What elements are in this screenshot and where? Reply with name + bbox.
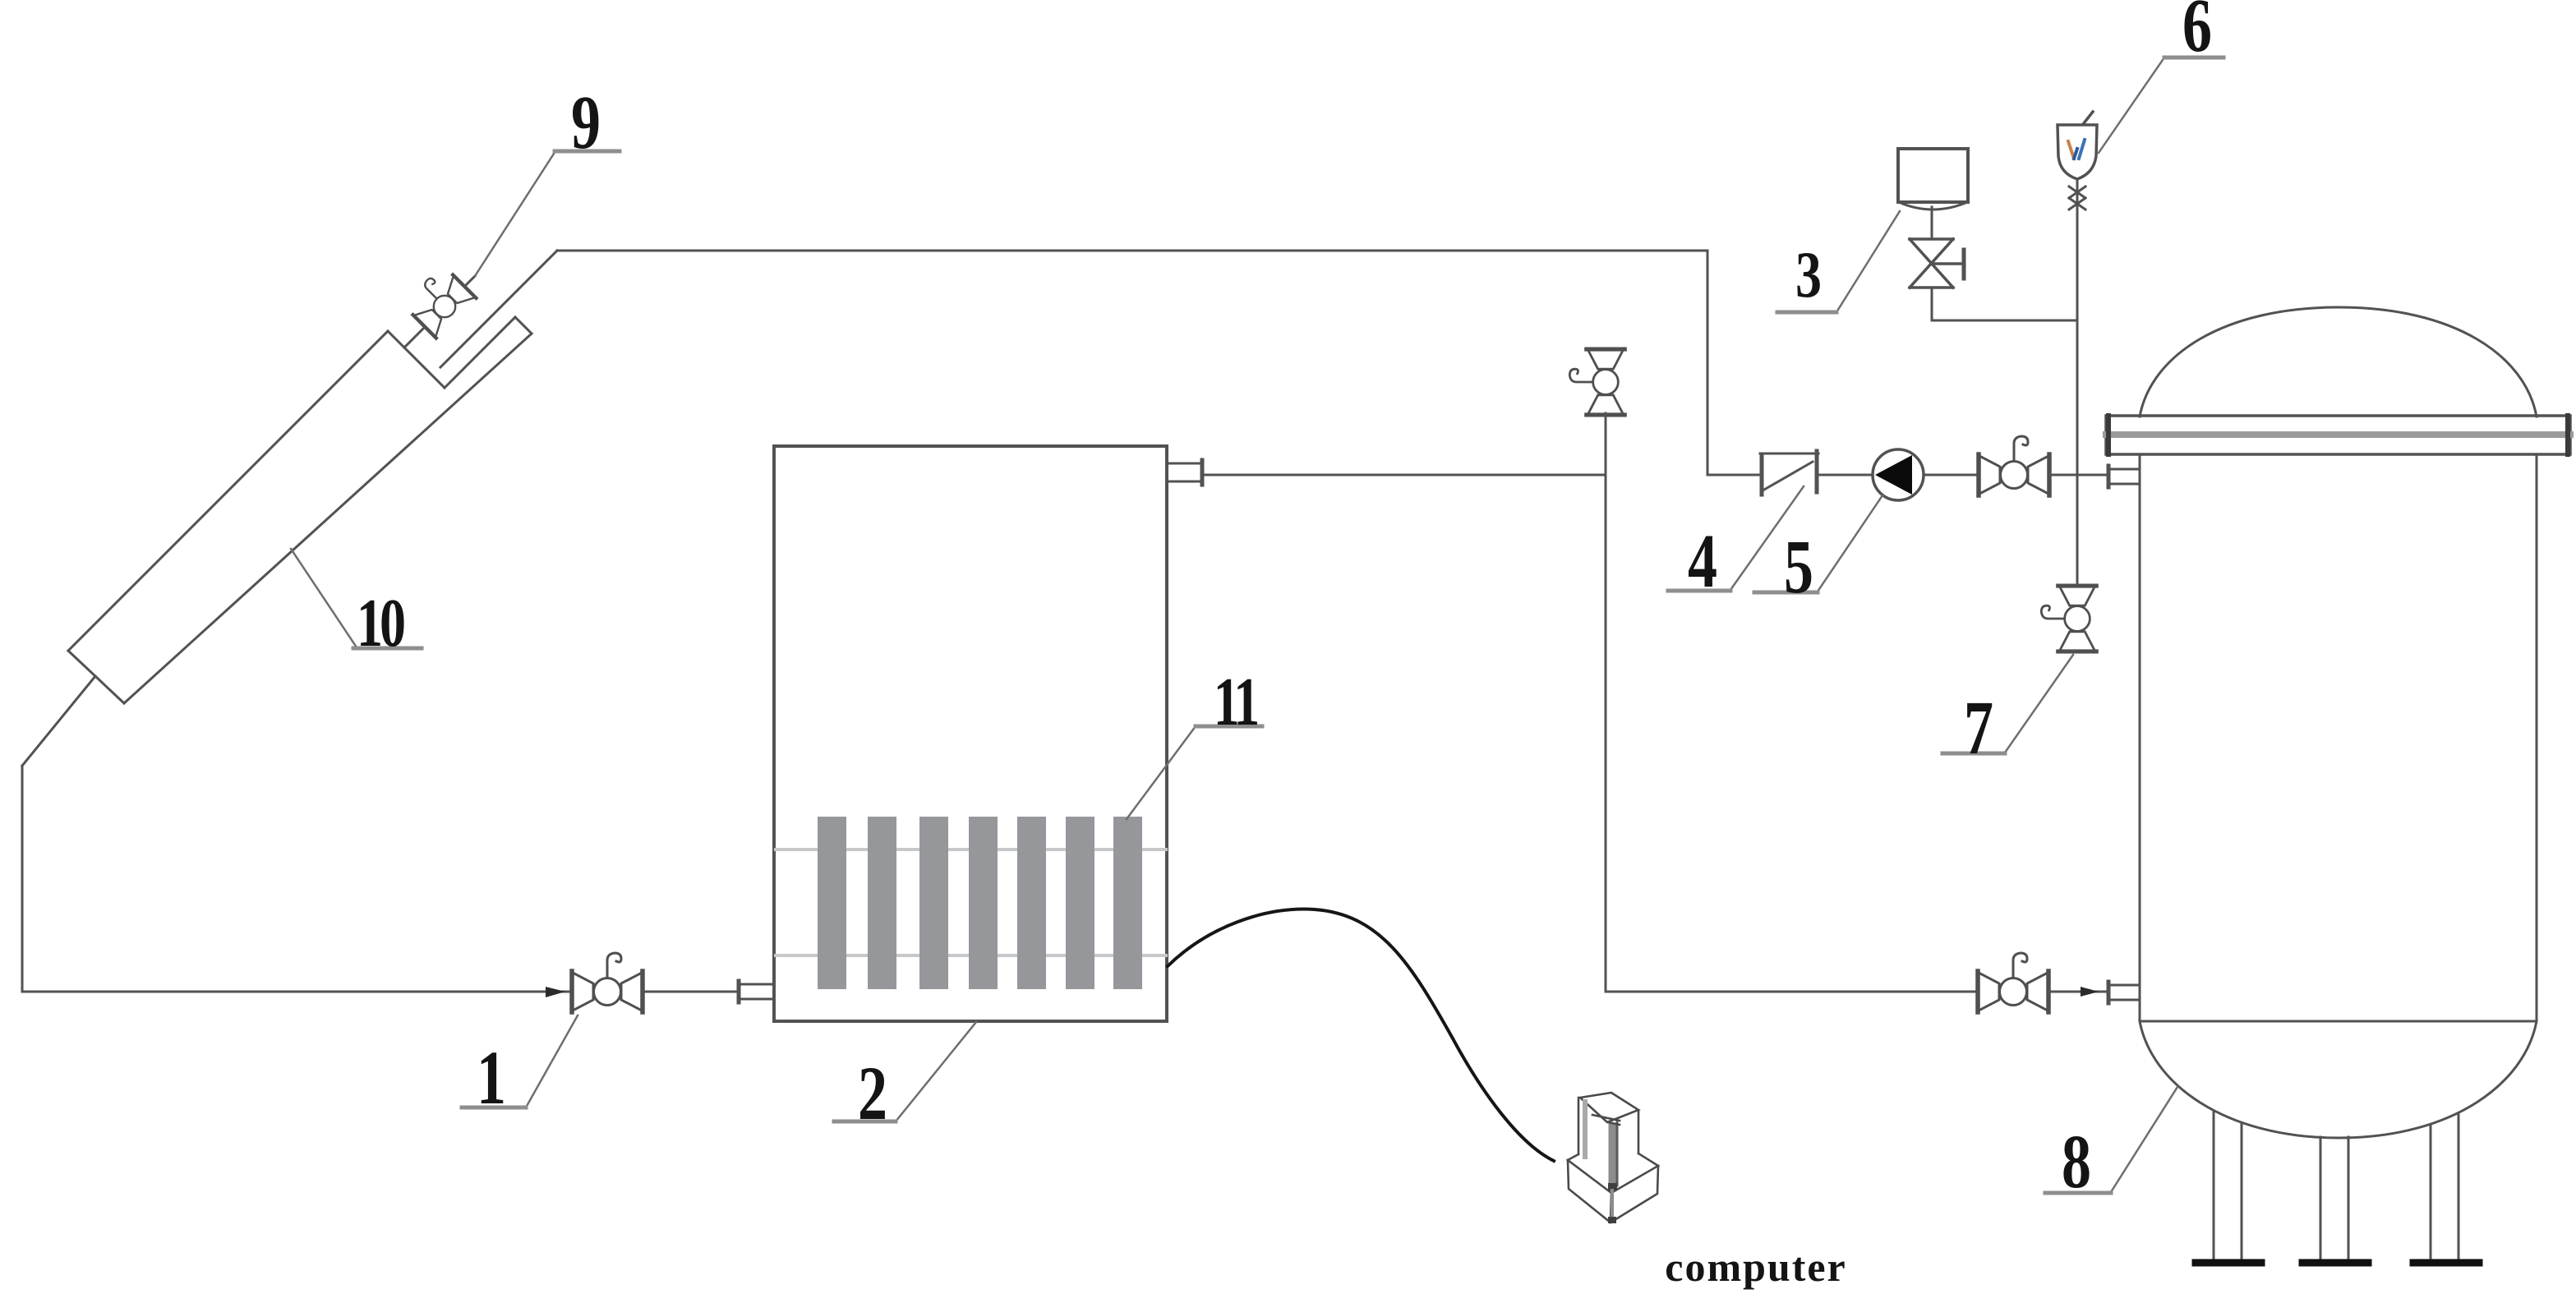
wire: stub above valve 9 [464, 276, 475, 287]
wire: neck from collector to valve 9 [404, 327, 425, 348]
wire: globe valve down then right [1931, 288, 1933, 320]
wire: top pipe [557, 250, 1707, 252]
relief globe valve below cup 3 [1910, 239, 1964, 288]
label underlines [353, 58, 2223, 1193]
wire: valve to tank 8 top nozzle [2049, 474, 2108, 477]
body walls [2139, 454, 2141, 1021]
light support lines in tank 2 [776, 848, 1166, 851]
tank 2 top-right nozzle [1168, 460, 1202, 485]
pump 5 [1873, 449, 1924, 500]
legs [2214, 1112, 2458, 1259]
wire: downcomer [1707, 251, 1709, 475]
cable from tank 2 to computer [1168, 909, 1554, 1161]
dome [2140, 307, 2537, 417]
vent device 6 [2058, 112, 2097, 179]
svg-text:11: 11 [1214, 665, 1258, 740]
wire: vertical line from device 6 down to valve 7 [2076, 179, 2079, 584]
wire: riser vertical [1605, 413, 1607, 992]
tank 2 [774, 446, 1167, 1021]
small double cross under device 6 [2069, 186, 2085, 209]
svg-text:9: 9 [571, 81, 601, 165]
weld line [2140, 1020, 2537, 1023]
flange [2106, 416, 2570, 454]
tank 8 [2106, 307, 2570, 1263]
svg-text:7: 7 [1964, 686, 1993, 771]
wire: check valve to pump [1819, 474, 1873, 477]
monitor left edge [1578, 1098, 1580, 1154]
collector 10 body [68, 317, 532, 703]
svg-text:6: 6 [2182, 0, 2212, 68]
svg-text:computer: computer [1665, 1244, 1847, 1290]
svg-text:5: 5 [1784, 525, 1813, 610]
heat pipes 11 (gray bars inside tank 2) [818, 817, 1142, 989]
wire: tank 2 to riser junction [1202, 474, 1606, 477]
wire: pump to valve [1924, 474, 1979, 477]
monitor right edge [1638, 1111, 1640, 1153]
svg-text:4: 4 [1688, 519, 1717, 604]
center pedestal bar [1609, 1127, 1616, 1186]
tank 8 top nozzle [2108, 466, 2140, 487]
wire: downcomer to check valve [1707, 474, 1761, 477]
wire: valve 1 to tank 2 nozzle [643, 991, 739, 993]
svg-text:10: 10 [357, 586, 404, 661]
monitor top face [1580, 1093, 1638, 1122]
valve before tank 8 top [1979, 436, 2049, 495]
cup 3 (expansion vessel) [1898, 149, 1968, 209]
svg-text:3: 3 [1795, 237, 1822, 311]
svg-text:1: 1 [477, 1036, 506, 1121]
wire: cup stem [1931, 207, 1933, 239]
leader lines [291, 58, 2177, 1192]
base sides [1568, 1160, 1658, 1222]
bottom dome [2140, 1021, 2537, 1138]
valve 1 [572, 953, 643, 1012]
valve 9 on collector [403, 265, 476, 338]
base top rim [1568, 1153, 1658, 1193]
wire: bottom-right pipe [1606, 991, 1978, 993]
wire: valve to tank 8 bottom nozzle [2048, 991, 2108, 993]
wire: feeder diagonal from collector to top pipe [440, 251, 557, 367]
arrow before tank 8 bottom nozzle [2081, 987, 2099, 997]
valve on riser (unlabeled) [1569, 349, 1624, 415]
svg-text:2: 2 [858, 1052, 887, 1136]
valve before tank 8 bottom [1978, 953, 2048, 1012]
computer (isometric monitor on base) [1568, 1093, 1658, 1223]
inner bezel line on top face [1592, 1115, 1620, 1121]
svg-text:8: 8 [2062, 1120, 2091, 1204]
wire: bottom-left pipe to valve 1 [22, 991, 572, 993]
check valve 4 [1760, 451, 1818, 495]
valve 7 [2041, 586, 2096, 651]
tank 8 bottom nozzle [2108, 982, 2140, 1003]
arrow on pipe before valve 1 [546, 987, 565, 997]
tank 2 left nozzle [739, 981, 773, 1002]
wire: collector outlet down-left [22, 676, 95, 766]
wire: left vertical pipe [21, 766, 24, 992]
